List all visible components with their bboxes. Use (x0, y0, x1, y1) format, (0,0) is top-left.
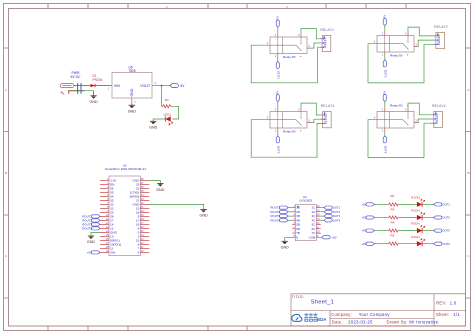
netflag ROUT3 (U2 gpio) (82, 223, 100, 227)
U1 pin names (296, 206, 300, 240)
logo JLC EDA (292, 314, 302, 321)
resistor R5 (388, 234, 399, 246)
connector RELAY4 screw terminal (432, 104, 446, 128)
relay RELAY2 channel (Relay-5V) (373, 32, 419, 58)
svg-text:2023-02-25: 2023-02-25 (348, 320, 373, 325)
wire U2 pin38 GND (149, 180, 160, 183)
svg-text:GND: GND (156, 188, 165, 192)
svg-text:RELAY3: RELAY3 (321, 104, 335, 108)
wire RELAY2 NC contact to terminal (418, 40, 433, 47)
netflag OUT4 (U1 output) (324, 218, 341, 222)
node VOUT junction (161, 85, 163, 87)
U1 pin numbers (293, 204, 295, 238)
wire RELAY2 NO contact to terminal (408, 27, 434, 36)
netflag 5V (RELAY3 coil supply) (276, 91, 280, 102)
wire R3 to LED (399, 217, 417, 219)
wire RELAY1 NO contact to terminal (301, 29, 320, 39)
wire RELAY1 NC contact to terminal (312, 43, 320, 48)
svg-text:Drawn By:: Drawn By: (387, 320, 408, 325)
svg-text:ROUT4: ROUT4 (271, 218, 281, 222)
svg-text:5V DC: 5V DC (71, 75, 82, 79)
netflag +5V (LED row 2) (361, 216, 374, 220)
wire ROUT4 to U1 input (288, 219, 292, 221)
wire coil to OUT4 (384, 132, 386, 136)
wire 5V to RELAY4 coil (384, 102, 386, 108)
svg-text:R1: R1 (165, 98, 169, 102)
svg-text:Relay-5V: Relay-5V (390, 104, 404, 108)
module U2 NodeMCU ESP-WROOM-32 (105, 163, 147, 255)
svg-text:GND: GND (89, 100, 98, 104)
svg-text:GND: GND (130, 88, 134, 96)
netflag OUT1 (RELAY1 coil drive) (276, 61, 280, 79)
svg-text:Date:: Date: (332, 320, 343, 325)
resistor R2 (388, 194, 399, 206)
connector PWR 5V DC barrel jack (60, 71, 84, 95)
svg-text:GND: GND (87, 240, 96, 244)
svg-text:OUT3: OUT3 (277, 146, 281, 154)
svg-text:Relay-5V: Relay-5V (283, 55, 297, 59)
ic U1 ULN2003 (295, 195, 316, 241)
svg-text:B: B (5, 171, 7, 175)
svg-text:NodeMCU ESP-WROOM-32: NodeMCU ESP-WROOM-32 (105, 167, 147, 171)
wire RELAY3 NC contact to terminal (312, 119, 321, 122)
svg-text:1/1: 1/1 (453, 312, 460, 317)
wire U2 GND pin14 (91, 232, 100, 235)
svg-text:OUT1: OUT1 (442, 203, 450, 207)
netflag OUT3 (U1 output) (324, 214, 341, 218)
svg-text:VIN: VIN (110, 251, 115, 255)
title block (291, 294, 466, 326)
wire ROUT3 to U1 input (288, 215, 292, 217)
wire LED1 to ground (153, 119, 165, 121)
relay RELAY4 channel (Relay-5V) (373, 104, 419, 133)
ground (U2 right top) (156, 184, 165, 192)
netflag 5V (RELAY4 coil supply) (383, 91, 387, 102)
connector RELAY3 screw terminal (320, 104, 334, 128)
netflag OUT3 (RELAY3 coil drive) (276, 136, 280, 154)
wire VOUT down to R1 (161, 86, 163, 107)
svg-text:Mr Innovative: Mr Innovative (409, 320, 438, 325)
ground (U2 left) (87, 236, 96, 244)
netflag OUT3 (LED row) (434, 229, 451, 233)
ground (U1) (281, 241, 290, 249)
wire RELAY3 NO contact to terminal (301, 103, 320, 115)
netflag +5V (LED row 3) (361, 229, 374, 233)
wire R1 to LED1 (172, 106, 179, 119)
netflag +5V (LED row 1) (361, 203, 374, 207)
wire VOUT to 5V flag (161, 85, 171, 87)
diode D1 PR204 (91, 74, 103, 87)
U2 left pin stubs (100, 180, 109, 252)
LED LED1 (164, 113, 173, 126)
U2 right pin numbers (141, 177, 144, 253)
wire 5V to RELAY3 coil (277, 102, 279, 108)
svg-text:RELAY1: RELAY1 (320, 28, 334, 32)
svg-text:R2ON: R2ON (411, 209, 419, 213)
wire coil to OUT3 (277, 132, 279, 136)
U1 left pin stubs (292, 208, 295, 238)
U2 left pin names (110, 179, 121, 255)
svg-text:5V: 5V (180, 84, 185, 88)
wire R5 to LED (399, 243, 417, 245)
wire RELAY1 COM loop to terminal (251, 45, 320, 83)
svg-text:PR204: PR204 (93, 78, 103, 82)
wire +5V to R4 (374, 230, 388, 232)
LED R4ON indicator (411, 235, 425, 247)
wire +5V to R3 (374, 217, 388, 219)
netflag ROUT3 (U1 input) (271, 214, 289, 218)
netflag OUT1 (U1 output) (324, 206, 341, 210)
wire LED to OUT1 (422, 203, 434, 205)
relay RELAY3 channel (Relay-5V) (266, 108, 312, 134)
wire RELAY3 COM loop to terminal (251, 120, 320, 158)
U1 right pin stubs (316, 208, 321, 238)
svg-text:GND: GND (199, 214, 208, 218)
svg-text:B: B (468, 171, 470, 175)
svg-text:R1ON: R1ON (411, 196, 419, 200)
svg-text:6: 6 (138, 251, 140, 255)
netflag ROUT2 (U1 input) (271, 210, 289, 214)
resistor R3 (388, 207, 399, 219)
connector RELAY2 screw terminal (434, 25, 448, 49)
svg-text:R4ON: R4ON (411, 235, 419, 239)
U2 right pin stubs (140, 180, 149, 252)
wire coil to OUT1 (277, 57, 279, 61)
svg-text:GND: GND (149, 126, 158, 130)
svg-text:REV:: REV: (436, 301, 446, 306)
svg-text:OUT1: OUT1 (277, 71, 281, 79)
wire jack tip to diode to VIN (red net) (74, 85, 112, 87)
netflag ROUT1 (U1 input) (271, 206, 289, 210)
svg-text:COM: COM (309, 235, 316, 239)
wire 5V to RELAY2 coil (384, 26, 386, 32)
svg-text:Your Company: Your Company (359, 312, 391, 317)
netflag ROUT2 (U2 gpio) (82, 219, 100, 223)
netflag +5V (U2 VIN) (87, 251, 100, 255)
netflag OUT4 (RELAY4 coil drive) (383, 136, 387, 154)
ground (U2 right mid) (199, 210, 208, 218)
netflag OUT1 (LED row) (434, 203, 451, 207)
svg-text:R4: R4 (391, 220, 395, 224)
resistor R1 (162, 98, 172, 108)
wire RELAY4 NC contact to terminal (418, 119, 431, 123)
wire ROUT2 to U1 input (288, 211, 292, 213)
wire 5V to RELAY1 coil (277, 27, 279, 33)
svg-text:OUT4: OUT4 (442, 242, 450, 246)
wire LED to OUT4 (422, 243, 434, 245)
netflag OUT2 (RELAY2 coil drive) (383, 60, 387, 78)
wire ROUT1 to U1 input (288, 207, 292, 209)
svg-text:5V: 5V (276, 16, 280, 20)
svg-text:Relay-5V: Relay-5V (390, 54, 404, 58)
netflag ROUT1 (U2 gpio) (82, 215, 100, 219)
svg-text:Sheet_1: Sheet_1 (311, 299, 334, 305)
regulator U5 7805 (108, 66, 161, 106)
svg-text:VIN: VIN (114, 84, 120, 88)
wire R4 to LED (399, 230, 417, 232)
netflag +5V (U1 COM) (322, 235, 337, 239)
svg-text:1.0: 1.0 (450, 301, 457, 306)
wire U2 GND pin32 (149, 204, 203, 209)
svg-text:+5V: +5V (87, 251, 92, 255)
ground (LED1) (149, 121, 158, 129)
svg-text:ROUT4: ROUT4 (82, 227, 92, 231)
wire U1 output to OUT1 (321, 207, 324, 209)
svg-text:Relay-5V: Relay-5V (283, 130, 297, 134)
ground (U5) (128, 105, 137, 113)
svg-text:A: A (5, 88, 7, 92)
wire RELAY4 COM loop to terminal (368, 120, 432, 158)
wire R2 to LED (399, 203, 417, 205)
wire U1 pin8 E to ground (285, 237, 293, 241)
svg-text:OUT4: OUT4 (384, 146, 388, 154)
wire U1 output to OUT3 (321, 215, 324, 217)
wire U1 output to OUT2 (321, 211, 324, 213)
svg-text:A: A (468, 88, 470, 92)
wire LED to OUT2 (422, 217, 434, 219)
LED R3ON indicator (411, 222, 425, 234)
svg-text:VOUT: VOUT (140, 84, 151, 88)
svg-text:E: E (296, 235, 298, 239)
svg-text:OUT3: OUT3 (442, 229, 450, 233)
svg-text:Company:: Company: (331, 312, 352, 317)
netflag +5V (LED row 4) (361, 242, 374, 246)
LED R2ON indicator (411, 209, 425, 220)
netflag 5V (U5 output) (170, 84, 185, 88)
svg-text:OUT4: OUT4 (333, 218, 341, 222)
connector RELAY1 screw terminal (320, 28, 334, 52)
wire +5V to R5 (374, 243, 388, 245)
ground (power input) (89, 96, 98, 104)
svg-text:LED1: LED1 (164, 113, 172, 117)
wire U1 pin9 COM to +5V (321, 236, 322, 238)
resistor R4 (388, 220, 399, 232)
svg-text:R3: R3 (391, 207, 395, 211)
wire U1 output to OUT4 (321, 219, 324, 221)
netflag ROUT4 (U1 input) (271, 218, 289, 222)
svg-text:TITLE:: TITLE: (292, 295, 305, 299)
svg-text:RELAY4: RELAY4 (432, 104, 446, 108)
svg-text:EDA: EDA (317, 317, 327, 322)
netflag OUT2 (LED row) (434, 216, 451, 220)
wire jack sleeve to ground (74, 90, 94, 92)
svg-text:5V: 5V (276, 91, 280, 95)
netflag 5V (RELAY2 coil supply) (383, 15, 387, 26)
svg-text:R5: R5 (391, 234, 395, 238)
wire LED to OUT3 (422, 230, 434, 232)
svg-text:R2: R2 (391, 194, 395, 198)
svg-text:R3ON: R3ON (411, 222, 419, 226)
svg-text:5V: 5V (383, 91, 387, 95)
svg-text:+5V: +5V (332, 235, 337, 239)
netflag OUT2 (U1 output) (324, 210, 341, 214)
svg-text:RELAY2: RELAY2 (434, 25, 448, 29)
svg-text:GND: GND (128, 109, 137, 113)
U2 right pin names (129, 179, 140, 255)
svg-text:GND: GND (281, 246, 290, 250)
svg-text:OUT2: OUT2 (384, 70, 388, 78)
svg-text:Sheet:: Sheet: (436, 312, 449, 317)
wire RELAY4 NO contact to terminal (408, 103, 432, 115)
LED R1ON indicator (411, 196, 425, 208)
wire RELAY2 COM loop to terminal (368, 44, 434, 83)
netflag 5V (RELAY1 coil supply) (276, 16, 280, 27)
netflag OUT4 (LED row) (434, 242, 451, 246)
svg-text:OUT2: OUT2 (442, 216, 450, 220)
U2 left pin numbers (106, 177, 109, 253)
svg-text:ULN2003: ULN2003 (299, 198, 312, 202)
wire coil to OUT2 (384, 56, 386, 60)
svg-text:5V: 5V (383, 15, 387, 19)
wire +5V to R2 (374, 203, 388, 205)
relay RELAY1 channel (Relay-5V) (266, 33, 312, 59)
netflag ROUT4 (U2 gpio) (82, 227, 100, 231)
